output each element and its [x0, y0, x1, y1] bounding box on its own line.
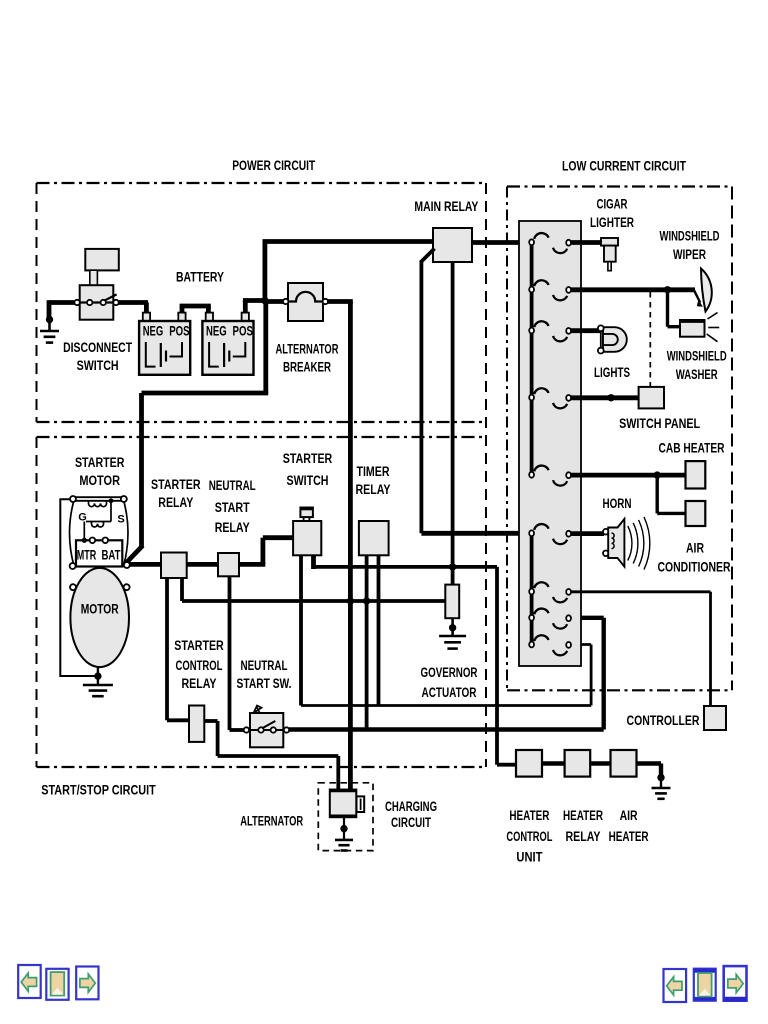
switch panel box E5 — [639, 387, 664, 409]
wire alternator breaker down to alternator — [348, 302, 353, 791]
svg-text:LOW CURRENT CIRCUIT: LOW CURRENT CIRCUIT — [562, 159, 686, 175]
air conditioner E7 — [686, 501, 706, 526]
switch SW6 in panel — [534, 524, 548, 530]
wire row9 to starter switch leg — [301, 704, 591, 707]
wire neutral start relay down to neutral start switch — [228, 576, 232, 730]
switch SW3 in panel — [534, 321, 548, 327]
main relay K1 — [433, 228, 472, 262]
svg-text:POS: POS — [169, 324, 189, 339]
svg-text:BATTERY: BATTERY — [176, 270, 224, 286]
wire junction to main relay — [262, 241, 267, 303]
nav button page right group — [694, 969, 716, 1001]
wire main relay left leg to horn row — [420, 249, 434, 263]
node washer branch — [664, 286, 671, 293]
svg-text:START SW.: START SW. — [237, 676, 292, 692]
switch SW9 in panel — [534, 635, 548, 641]
svg-text:START: START — [215, 500, 250, 516]
svg-text:STARTER: STARTER — [151, 477, 201, 493]
starter motor solenoid — [70, 497, 129, 566]
wire row5 to cab heater — [571, 473, 686, 478]
svg-text:HORN: HORN — [603, 496, 632, 512]
svg-text:LIGHTS: LIGHTS — [594, 365, 630, 381]
wire timer relay left leg down to neutral start switch wire — [365, 555, 369, 729]
ground G3 governor — [451, 618, 454, 636]
wire row6 to horn — [571, 531, 604, 536]
ground G4 alternator — [343, 817, 345, 840]
border start/stop circuit box — [37, 183, 487, 767]
svg-text:HEATER: HEATER — [509, 808, 549, 824]
ground G1 disconnect — [46, 316, 53, 323]
wire row4 to switch panel box — [571, 395, 639, 400]
svg-text:NEG: NEG — [143, 324, 164, 339]
svg-text:STARTER: STARTER — [174, 638, 224, 654]
nav button next left group — [76, 967, 98, 1000]
svg-text:STARTER: STARTER — [283, 451, 333, 467]
border low current circuit box — [507, 187, 732, 691]
node battery junction — [261, 297, 268, 304]
wire starter switch bottom right to heater feed — [311, 555, 316, 569]
node main relay junction — [449, 563, 456, 570]
svg-text:CONTROL: CONTROL — [506, 829, 552, 845]
svg-text:BAT: BAT — [102, 547, 121, 562]
wire neutral start relay to starter switch — [239, 562, 265, 567]
battery B2 — [180, 306, 185, 313]
node governor line x alternator feed — [347, 597, 354, 604]
svg-text:S: S — [117, 514, 124, 526]
alternator A1 — [330, 790, 357, 818]
nav button page left group — [46, 969, 68, 1000]
switch SW5 in panel — [534, 466, 548, 472]
windshield wiper E2 blade icon — [701, 269, 712, 312]
wire heater chain — [542, 761, 565, 765]
cigar lighter E1 — [601, 238, 618, 246]
wire to windshield washer — [666, 290, 669, 327]
air heater E9 — [611, 750, 637, 777]
wire to air conditioner — [656, 475, 659, 513]
wire row3 to lights — [571, 328, 601, 333]
svg-text:MOTOR: MOTOR — [79, 473, 120, 489]
nav button prev right group — [664, 969, 687, 1002]
switch panel bus bars — [530, 242, 534, 474]
nav button next right group — [724, 966, 747, 1001]
starter control relay K5 — [189, 706, 204, 742]
wire starter relay bottom left to starter control relay — [165, 578, 169, 720]
svg-text:GOVERNOR: GOVERNOR — [421, 665, 478, 681]
svg-text:WIPER: WIPER — [673, 247, 706, 263]
svg-text:UNIT: UNIT — [516, 850, 542, 866]
svg-text:NEG: NEG — [206, 324, 227, 339]
svg-text:RELAY: RELAY — [215, 520, 250, 536]
svg-text:AIR: AIR — [686, 541, 704, 557]
wire neutral start switch to row8 — [289, 727, 604, 731]
wire solenoid to motor ground loop — [60, 499, 95, 676]
svg-text:RELAY: RELAY — [356, 482, 391, 498]
svg-text:DISCONNECT: DISCONNECT — [63, 340, 132, 356]
svg-text:RELAY: RELAY — [182, 676, 217, 692]
nav button prev left group — [18, 965, 41, 998]
svg-text:CIRCUIT: CIRCUIT — [391, 815, 431, 831]
svg-text:RELAY: RELAY — [566, 829, 601, 845]
svg-text:POS: POS — [233, 324, 253, 339]
svg-text:CONDITIONER: CONDITIONER — [658, 560, 731, 576]
svg-text:RELAY: RELAY — [158, 495, 193, 511]
disconnect switch S1 — [85, 249, 119, 271]
svg-text:G: G — [78, 512, 87, 524]
node governor line x timer leg — [363, 597, 370, 604]
windshield washer E3 — [680, 320, 705, 337]
heater control unit U2 — [516, 750, 542, 777]
svg-text:SWITCH: SWITCH — [287, 473, 329, 489]
starter motor MTR BAT box — [76, 540, 122, 566]
wire starter relay bottom right to governor actuator line — [180, 578, 184, 601]
switch SW7 in panel — [534, 582, 548, 588]
starter motor M1 body — [70, 568, 129, 667]
svg-text:WINDSHIELD: WINDSHIELD — [660, 229, 720, 245]
governor actuator R1 — [445, 585, 459, 619]
wire main relay bottom to governor actuator — [451, 262, 455, 585]
svg-text:CONTROL: CONTROL — [176, 658, 223, 674]
alternator breaker CB1 — [265, 299, 286, 304]
svg-text:BREAKER: BREAKER — [283, 360, 331, 376]
neutral start switch S3 — [254, 706, 262, 714]
svg-text:ACTUATOR: ACTUATOR — [422, 685, 477, 701]
svg-text:HEATER: HEATER — [563, 808, 603, 824]
wire battery to junction — [243, 301, 248, 313]
heater relay K6 — [565, 750, 591, 777]
wire BAT to starter relay — [129, 562, 162, 567]
svg-text:ALTERNATOR: ALTERNATOR — [276, 342, 339, 358]
svg-text:CIGAR: CIGAR — [597, 197, 628, 213]
svg-text:CHARGING: CHARGING — [385, 799, 437, 815]
svg-text:SWITCH: SWITCH — [77, 358, 119, 374]
cab heater E6 — [686, 461, 706, 488]
ground G2 motor — [94, 672, 101, 679]
wire starter switch bottom left down — [299, 555, 303, 705]
svg-text:AIR: AIR — [620, 808, 638, 824]
svg-text:STARTER: STARTER — [75, 455, 125, 471]
svg-text:TIMER: TIMER — [357, 464, 390, 480]
ground G5 air heater — [657, 774, 664, 781]
svg-text:NEUTRAL: NEUTRAL — [209, 478, 256, 494]
border power circuit box — [37, 183, 487, 422]
svg-text:NEUTRAL: NEUTRAL — [241, 658, 288, 674]
wiper link — [694, 290, 700, 302]
switch SW1 in panel — [534, 233, 548, 239]
neutral start relay K3 — [218, 553, 239, 576]
timer relay K4 — [359, 521, 389, 555]
svg-text:WASHER: WASHER — [676, 367, 718, 383]
svg-text:MOTOR: MOTOR — [81, 602, 119, 618]
svg-text:CONTROLLER: CONTROLLER — [627, 713, 700, 729]
controller U1 — [704, 706, 726, 730]
svg-text:WINDSHIELD: WINDSHIELD — [667, 349, 727, 365]
wire row2 to windshield wiper — [571, 287, 695, 292]
wire row1 to cigar lighter — [571, 240, 602, 245]
dashed link wiper wire to switch panel box — [649, 292, 651, 386]
wire row7 to controller — [571, 590, 711, 593]
node air conditioner branch — [654, 471, 661, 478]
wire starter relay to neutral start relay — [187, 562, 219, 567]
wire main relay to switch panel — [472, 240, 530, 245]
switch SW8 in panel — [534, 609, 548, 615]
wire ground to disconnect switch — [49, 300, 148, 305]
charging circuit dashed box — [318, 783, 373, 851]
solenoid terminals — [70, 496, 76, 502]
switch SW4 in panel — [534, 388, 548, 394]
svg-text:HEATER: HEATER — [609, 829, 649, 845]
svg-text:START/STOP CIRCUIT: START/STOP CIRCUIT — [41, 783, 156, 799]
wire junction down to bat feed — [263, 301, 268, 394]
starter relay K2 — [161, 553, 187, 579]
svg-text:MTR: MTR — [77, 547, 97, 562]
lights E4 lamp icon — [603, 327, 627, 352]
svg-text:MAIN RELAY: MAIN RELAY — [414, 199, 478, 215]
starter switch S2 — [300, 508, 313, 518]
horn E8 — [603, 529, 609, 535]
svg-text:ALTERNATOR: ALTERNATOR — [240, 814, 303, 830]
svg-text:CAB HEATER: CAB HEATER — [659, 441, 725, 457]
svg-text:POWER CIRCUIT: POWER CIRCUIT — [232, 158, 315, 174]
wire timer relay right leg down — [377, 555, 381, 705]
switch SW2 in panel — [534, 280, 548, 286]
battery B1 — [144, 303, 149, 314]
wire down to heater control unit — [495, 567, 499, 765]
svg-text:LIGHTER: LIGHTER — [590, 215, 634, 231]
wire starter control relay to alternator — [204, 719, 217, 723]
wire to heater control vertical — [314, 565, 498, 569]
switch panel block — [519, 221, 581, 666]
svg-text:SWITCH PANEL: SWITCH PANEL — [619, 416, 700, 432]
node row4 — [607, 394, 614, 401]
